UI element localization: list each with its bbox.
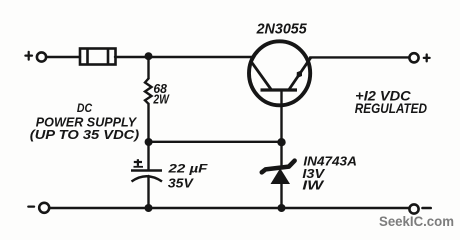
svg-text:REGULATED: REGULATED bbox=[355, 101, 427, 116]
svg-text:2W: 2W bbox=[153, 92, 170, 106]
svg-text:22 µF: 22 µF bbox=[167, 162, 208, 176]
svg-text:DC: DC bbox=[77, 101, 92, 115]
svg-text:(UP TO 35 VDC): (UP TO 35 VDC) bbox=[30, 127, 139, 142]
svg-text:35V: 35V bbox=[168, 176, 194, 191]
svg-text:2N3055: 2N3055 bbox=[256, 22, 308, 38]
svg-text:IW: IW bbox=[302, 178, 325, 193]
svg-text:SeekIC.com: SeekIC.com bbox=[379, 214, 454, 229]
